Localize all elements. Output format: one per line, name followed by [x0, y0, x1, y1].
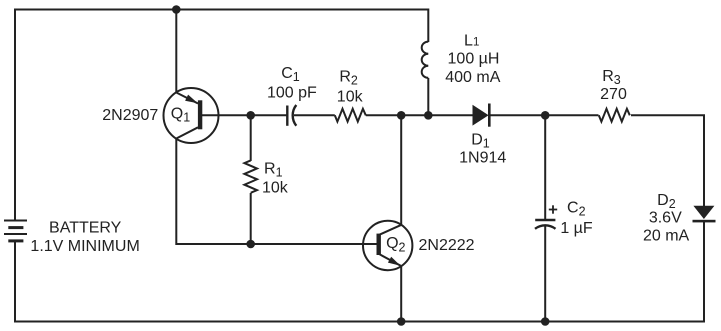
- wire bottom rail: [14, 321, 705, 323]
- wire Q2 emitter to bottom rail: [400, 266, 402, 322]
- resistor R2: [335, 109, 366, 122]
- svg-text:3.6V: 3.6V: [649, 209, 682, 226]
- svg-text:10k: 10k: [262, 179, 289, 196]
- svg-text:100 µH: 100 µH: [448, 50, 500, 67]
- resistor R1: [244, 160, 257, 192]
- wire Q1 emitter to top rail: [175, 10, 177, 93]
- wire L1 bottom lead: [427, 78, 429, 115]
- svg-text:1N914: 1N914: [459, 149, 506, 166]
- wire right rail upper (R3 to D2 anode): [631, 115, 704, 206]
- node C2 bottom / bottom rail: [541, 317, 550, 326]
- wire R2 to D1 anode: [366, 114, 473, 116]
- resistor R3: [599, 109, 630, 122]
- transistor Q1 (2N2907 PNP): [164, 88, 219, 143]
- wire D1 cathode to R3: [490, 114, 599, 116]
- node Q1 base / R1 / C1: [246, 111, 255, 120]
- svg-text:1 µF: 1 µF: [560, 220, 593, 237]
- transistor Q2 (2N2222 NPN): [363, 221, 412, 270]
- node R2 / Q2 collector: [397, 111, 406, 120]
- wire C1 to R2: [294, 114, 335, 116]
- svg-text:2N2222: 2N2222: [419, 237, 475, 254]
- svg-text:2N2907: 2N2907: [102, 107, 158, 124]
- inductor L1: [422, 42, 429, 78]
- wire Q1 base to C1: [202, 114, 287, 116]
- wire C2 top lead: [544, 115, 546, 219]
- wire Q2 collector to node: [400, 115, 402, 225]
- svg-text:BATTERY: BATTERY: [49, 219, 122, 236]
- node Q2 emitter / bottom rail: [397, 317, 406, 326]
- diode D1 (1N914): [473, 104, 491, 127]
- node L1 / D1 anode: [424, 111, 433, 120]
- node R1 bottom / Q2 base wire: [246, 240, 255, 249]
- svg-text:20 mA: 20 mA: [643, 228, 690, 245]
- node top rail / Q1 emitter: [172, 5, 181, 14]
- svg-text:270: 270: [600, 86, 627, 103]
- svg-text:10k: 10k: [337, 89, 364, 106]
- wire R1 top lead: [250, 115, 252, 161]
- wire right rail lower (D2 cathode to bottom rail): [703, 221, 705, 323]
- capacitor C2: [535, 205, 557, 229]
- node junction dots: [172, 5, 550, 326]
- battery B1: [4, 221, 27, 241]
- wire R1 bottom lead: [250, 193, 252, 244]
- svg-text:100 pF: 100 pF: [267, 85, 317, 102]
- wire left rail lower (battery negative to bottom rail): [14, 241, 16, 322]
- capacitor C1: [287, 105, 296, 126]
- wire top rail: [15, 10, 428, 221]
- svg-text:1.1V MINIMUM: 1.1V MINIMUM: [30, 238, 139, 255]
- wire C2 bottom lead: [544, 227, 546, 322]
- node D1 cathode / C2 / R3: [541, 111, 550, 120]
- svg-text:400 mA: 400 mA: [445, 69, 500, 86]
- wire Q1 collector to Q2 base: [176, 139, 363, 245]
- diode D2: [693, 206, 716, 223]
